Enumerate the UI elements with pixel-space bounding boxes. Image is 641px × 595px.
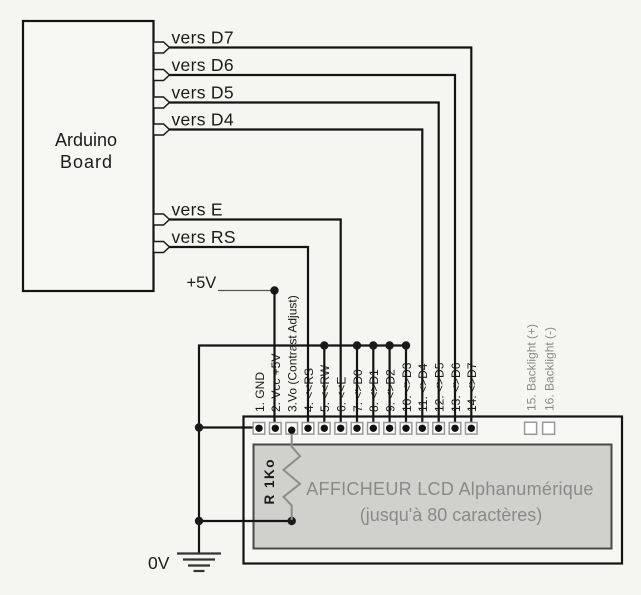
port tag vers D4 <box>154 124 170 135</box>
port tag vers RS <box>154 242 170 253</box>
pin 2 square <box>270 423 282 435</box>
wire Vcc to pin 2 <box>273 291 275 429</box>
pin 1 dot <box>255 425 262 432</box>
svg-text:12. <>D5: 12. <>D5 <box>432 362 446 412</box>
wire ground to resistor bottom <box>199 520 292 522</box>
svg-text:vers RS: vers RS <box>172 227 236 247</box>
svg-text:9. <>D2: 9. <>D2 <box>383 369 397 412</box>
wire ground bus horizontal <box>199 346 406 553</box>
pin 4 dot <box>304 425 311 432</box>
svg-text:14. <>D7: 14. <>D7 <box>465 362 479 412</box>
wire stub bus to pin 5 <box>323 346 325 429</box>
svg-text:5. <<RW: 5. <<RW <box>318 364 332 412</box>
wire ground to pin 1 <box>199 426 259 428</box>
wire D4 <box>170 130 423 429</box>
svg-text:+5V: +5V <box>187 274 217 292</box>
wire D6 <box>170 75 456 428</box>
junction resistor bottom <box>288 517 296 525</box>
LCD module outer box <box>244 417 623 564</box>
port tag vers D7 <box>154 42 170 53</box>
pin 4 square <box>302 423 314 435</box>
pin 6 square <box>335 423 347 435</box>
pin 5 dot <box>321 425 328 432</box>
port tag vers E <box>154 214 170 225</box>
pin 3 dot <box>288 427 295 434</box>
svg-text:vers D7: vers D7 <box>172 28 234 48</box>
pin 13 dot <box>451 425 458 432</box>
port tag vers D6 <box>154 70 170 81</box>
junction ground pin1 <box>195 423 203 431</box>
wire stub bus to pin 10 <box>405 346 407 429</box>
pin 13 square <box>449 423 461 435</box>
pin 2 dot <box>272 425 279 432</box>
junction bus pin 7 <box>353 341 361 349</box>
junction bus pin 5 <box>320 341 328 349</box>
pin 16 backlight square <box>543 422 555 434</box>
junction ground resistor <box>195 517 203 525</box>
svg-text:13. <>D6: 13. <>D6 <box>449 362 463 412</box>
wire D5 <box>170 103 439 429</box>
junction bus pin 10 <box>402 341 410 349</box>
svg-text:1. GND: 1. GND <box>253 372 267 412</box>
svg-text:vers D5: vers D5 <box>172 83 234 103</box>
pin 14 square <box>466 423 478 435</box>
svg-text:10. <>D3: 10. <>D3 <box>400 362 414 412</box>
svg-text:16. Backlight (-): 16. Backlight (-) <box>542 327 556 411</box>
Arduino board U1 <box>23 21 154 291</box>
pin 7 dot <box>353 425 360 432</box>
pin 8 dot <box>370 425 377 432</box>
svg-text:3.Vo (Contrast Adjust): 3.Vo (Contrast Adjust) <box>286 295 300 412</box>
svg-text:vers D4: vers D4 <box>172 110 234 130</box>
ground symbol <box>177 554 221 572</box>
wire stub bus to pin 9 <box>389 346 391 429</box>
pin 9 dot <box>386 425 393 432</box>
pin 10 dot <box>402 425 409 432</box>
svg-text:7. <>D0: 7. <>D0 <box>351 369 365 412</box>
port tag vers D5 <box>154 97 170 108</box>
svg-text:Board: Board <box>60 152 113 172</box>
svg-text:vers E: vers E <box>172 200 223 220</box>
svg-text:AFFICHEUR LCD Alphanumérique: AFFICHEUR LCD Alphanumérique <box>306 479 594 499</box>
pin 15 backlight square <box>525 422 537 434</box>
junction bus pin 8 <box>369 341 377 349</box>
svg-text:vers D6: vers D6 <box>172 55 234 75</box>
pin 9 square <box>384 423 396 435</box>
svg-text:0V: 0V <box>148 553 170 573</box>
svg-text:6. <<E: 6. <<E <box>335 377 349 412</box>
wire E <box>170 220 341 429</box>
junction bus pin 9 <box>385 341 393 349</box>
svg-text:8. <>D1: 8. <>D1 <box>367 369 381 412</box>
svg-text:11. <>D4: 11. <>D4 <box>416 363 430 412</box>
svg-text:15. Backlight (+): 15. Backlight (+) <box>524 324 538 411</box>
svg-text:(jusqu'à 80 caractères): (jusqu'à 80 caractères) <box>360 505 543 525</box>
wire stub bus to pin 7 <box>356 346 358 429</box>
wire D7 <box>170 48 472 429</box>
wire RS <box>170 247 309 428</box>
pin 11 square <box>417 423 429 435</box>
pin 12 square <box>433 423 445 435</box>
pin 8 square <box>368 423 380 435</box>
svg-text:4. <<RS: 4. <<RS <box>302 368 316 412</box>
svg-text:R 1Ko: R 1Ko <box>262 458 277 505</box>
svg-text:Arduino: Arduino <box>55 130 117 150</box>
wire stub bus to pin 8 <box>372 346 374 429</box>
pin 6 dot <box>337 425 344 432</box>
pin 12 dot <box>435 425 442 432</box>
junction +5V node <box>270 286 278 294</box>
pin 11 dot <box>419 425 426 432</box>
pin 10 square <box>400 423 412 435</box>
svg-text:2. Vcc +5V: 2. Vcc +5V <box>269 354 283 412</box>
pin 5 square <box>319 423 331 435</box>
wire +5V lead <box>218 290 275 292</box>
resistor R1 1K zigzag <box>284 431 301 520</box>
LCD display inner area <box>254 445 612 549</box>
pin 14 dot <box>468 425 475 432</box>
pin 3 square <box>286 423 298 435</box>
pin 1 square <box>253 423 265 435</box>
pin 7 square <box>351 423 363 435</box>
